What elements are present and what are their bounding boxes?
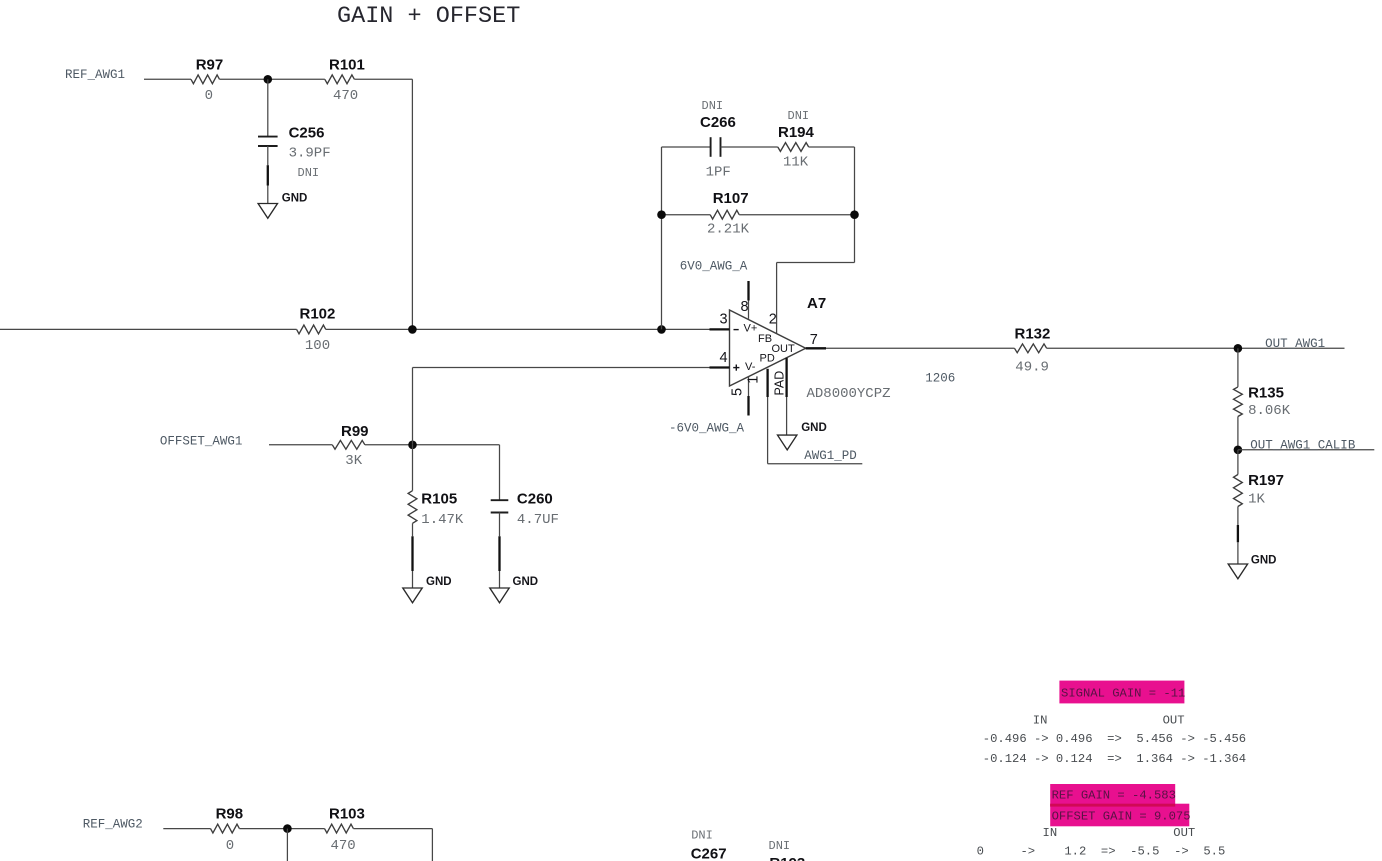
svg-text:7: 7: [810, 332, 818, 348]
svg-text:OUT: OUT: [772, 343, 796, 355]
wire R103 to corner: [353, 828, 432, 830]
wire R98 to R103: [239, 828, 324, 830]
wire pin2 horizontal: [777, 262, 855, 264]
wire to op-amp pin4: [413, 367, 710, 369]
svg-text:OFFSET_AWG1: OFFSET_AWG1: [160, 434, 243, 448]
svg-text:GND: GND: [513, 576, 539, 588]
wire junction down: [286, 829, 288, 861]
op-amp internal labels: [734, 329, 739, 331]
resistor R98: [211, 824, 240, 833]
svg-text:0: 0: [226, 838, 234, 854]
svg-text:GAIN + OFFSET: GAIN + OFFSET: [337, 3, 520, 30]
wire up to pin4 line: [412, 368, 414, 445]
svg-text:R101: R101: [329, 56, 365, 73]
svg-text:6V0_AWG_A: 6V0_AWG_A: [680, 259, 748, 273]
pin 7 output: [806, 347, 826, 349]
svg-text:2: 2: [769, 311, 777, 327]
wire feedback left vertical: [661, 147, 663, 329]
wire corner down to inverting line: [411, 79, 413, 329]
svg-text:DNI: DNI: [702, 99, 724, 113]
resistor R132: [1015, 344, 1047, 353]
svg-text:-0.124 -> 0.124 => 1.364 ->: -0.124 -> 0.124 => 1.364 -> -1.364: [983, 752, 1246, 766]
svg-text:1206: 1206: [925, 372, 955, 386]
svg-text:5: 5: [730, 388, 746, 396]
svg-text:OUT_AWG1_CALIB: OUT_AWG1_CALIB: [1250, 439, 1356, 453]
wire R99 to C260: [365, 444, 500, 446]
svg-text:0: 0: [205, 88, 213, 104]
junction R98/C257: [283, 824, 292, 833]
svg-text:100: 100: [305, 338, 330, 354]
resistor R194: [778, 143, 809, 152]
pin C260 bottom: [499, 513, 501, 537]
wire R101 to corner: [354, 78, 412, 80]
svg-text:REF GAIN = -4.583: REF GAIN = -4.583: [1052, 788, 1176, 802]
wire OUT_AWG1_CALIB: [1238, 449, 1374, 451]
resistor R197: [1234, 475, 1243, 507]
svg-text:R105: R105: [421, 490, 457, 507]
pin R105 bottom: [412, 523, 414, 536]
svg-text:GND: GND: [1251, 555, 1277, 567]
svg-text:DNI: DNI: [769, 839, 791, 853]
svg-text:R98: R98: [216, 806, 244, 823]
svg-text:V+: V+: [744, 323, 758, 335]
svg-text:-6V0_AWG_A: -6V0_AWG_A: [669, 421, 745, 435]
svg-text:AWG1_PD: AWG1_PD: [804, 449, 857, 463]
svg-text:8: 8: [741, 299, 749, 315]
svg-text:OUT: OUT: [1163, 713, 1185, 727]
wire REF_AWG1 to R97: [144, 78, 191, 80]
ground R197: [1228, 564, 1247, 579]
capacitor C256: [258, 136, 278, 138]
svg-text:8.06K: 8.06K: [1248, 403, 1291, 419]
svg-text:OFFSET GAIN = 9.075: OFFSET GAIN = 9.075: [1052, 810, 1191, 824]
svg-text:1K: 1K: [1248, 492, 1265, 508]
svg-text:11K: 11K: [783, 155, 809, 171]
svg-text:3: 3: [720, 311, 728, 327]
svg-text:AD8000YCPZ: AD8000YCPZ: [807, 386, 891, 402]
wire C266 to R194: [721, 146, 778, 148]
svg-text:-0.496 -> 0.496 => 5.456 ->: -0.496 -> 0.496 => 5.456 -> -5.456: [983, 732, 1246, 746]
svg-text:GND: GND: [801, 422, 827, 434]
svg-text:DNI: DNI: [298, 166, 320, 180]
wire left edge to R102: [0, 328, 297, 330]
wire down to R105: [412, 445, 414, 491]
svg-text:OUT_AWG1: OUT_AWG1: [1265, 337, 1325, 351]
wire REF_AWG2 to R98: [163, 828, 210, 830]
svg-text:DNI: DNI: [788, 109, 810, 123]
resistor R107: [710, 210, 739, 219]
wire junction to C256: [267, 79, 269, 136]
junction offset node: [408, 441, 417, 450]
wire R97 to R101: [220, 78, 325, 80]
note SIGNAL GAIN highlight: [1059, 681, 1184, 704]
wire pin1 down: [767, 397, 769, 464]
note OFFSET GAIN highlight: [1050, 804, 1189, 827]
svg-text:C260: C260: [517, 490, 553, 507]
wire AWG1_PD: [768, 463, 863, 465]
junction OUT_AWG1: [1234, 344, 1243, 353]
pin R197 bottom: [1237, 507, 1239, 526]
ground PAD: [778, 435, 797, 450]
svg-text:SIGNAL GAIN = -11: SIGNAL GAIN = -11: [1061, 687, 1185, 701]
svg-text:REF_AWG2: REF_AWG2: [83, 818, 143, 832]
wire corner down: [431, 829, 433, 861]
wire R102 to op-amp pin3: [326, 328, 710, 330]
capacitor C266: [710, 137, 712, 157]
pin 3 inverting input: [710, 328, 730, 330]
svg-text:R135: R135: [1248, 384, 1284, 401]
svg-text:0 -> 1.2 => -5.5 ->: 0 -> 1.2 => -5.5 -> 5.5: [977, 845, 1226, 859]
junction R107 left: [657, 210, 666, 219]
svg-text:R194: R194: [778, 124, 815, 141]
svg-text:V-: V-: [745, 361, 756, 373]
ground C256: [258, 204, 277, 219]
svg-text:C256: C256: [289, 124, 325, 141]
svg-text:OUT: OUT: [1173, 826, 1195, 840]
svg-text:C267: C267: [691, 845, 727, 861]
wire R132 to OUT_AWG1: [1047, 347, 1345, 349]
svg-text:FB: FB: [758, 333, 772, 345]
svg-text:DNI: DNI: [691, 829, 713, 843]
svg-text:49.9: 49.9: [1015, 360, 1049, 376]
resistor R103: [325, 824, 354, 833]
wire R135 to CALIB node: [1237, 417, 1239, 450]
svg-text:1.47K: 1.47K: [421, 512, 464, 528]
wire R107 to right vertical: [739, 214, 854, 216]
resistor R99: [332, 440, 365, 449]
ground C260: [490, 588, 509, 603]
wire down to R135: [1237, 348, 1239, 387]
svg-text:4.7UF: 4.7UF: [517, 512, 559, 528]
wire left to R107: [662, 214, 711, 216]
svg-text:3K: 3K: [345, 453, 362, 469]
svg-text:REF_AWG1: REF_AWG1: [65, 68, 125, 82]
pin PAD: [785, 358, 787, 397]
svg-text:GND: GND: [282, 193, 308, 205]
resistor R101: [325, 75, 355, 84]
svg-text:PAD: PAD: [773, 371, 787, 396]
wire op-amp output to R132: [826, 347, 1015, 349]
svg-text:R193: R193: [769, 855, 805, 861]
svg-text:470: 470: [331, 838, 356, 854]
ground R105: [403, 588, 422, 603]
resistor R105: [408, 491, 417, 524]
wire to C266: [662, 146, 711, 148]
svg-text:4: 4: [720, 350, 728, 366]
svg-text:IN: IN: [1043, 826, 1058, 840]
resistor R102: [297, 325, 326, 334]
svg-text:R107: R107: [713, 190, 749, 207]
note REF GAIN highlight: [1050, 784, 1175, 807]
svg-text:1PF: 1PF: [706, 165, 731, 181]
wire OFFSET_AWG1 to R99: [269, 444, 332, 446]
svg-text:R102: R102: [300, 305, 336, 322]
svg-text:470: 470: [333, 88, 358, 104]
wire R194 to right vertical: [809, 146, 855, 148]
svg-text:C266: C266: [700, 114, 736, 131]
wire down to C260: [499, 445, 501, 500]
svg-text:IN: IN: [1033, 713, 1048, 727]
svg-text:R97: R97: [196, 56, 224, 73]
pin 8 V+ supply: [747, 281, 749, 301]
op-amp A7 AD8000YCPZ: [730, 310, 806, 386]
resistor R97: [191, 75, 220, 84]
svg-text:R197: R197: [1248, 472, 1284, 489]
svg-text:1: 1: [745, 376, 761, 384]
wire PAD to ground: [786, 397, 788, 435]
wire down to R197: [1237, 450, 1239, 475]
wire pin2 down to FB: [776, 263, 778, 334]
svg-text:3.9PF: 3.9PF: [289, 146, 331, 162]
pin C256 bottom: [267, 146, 269, 165]
svg-text:R103: R103: [329, 806, 365, 823]
pin 4 non-inverting input: [710, 366, 730, 368]
svg-text:R99: R99: [341, 423, 369, 440]
resistor R135: [1234, 387, 1243, 417]
junction R97/C256: [264, 75, 273, 84]
junction feedback left: [657, 325, 666, 334]
svg-text:R132: R132: [1015, 325, 1051, 342]
svg-text:2.21K: 2.21K: [707, 221, 750, 237]
junction R107 right: [850, 210, 859, 219]
capacitor C260: [491, 499, 509, 501]
svg-text:GND: GND: [426, 576, 452, 588]
svg-text:PD: PD: [760, 353, 775, 365]
wire feedback right vertical: [854, 147, 856, 263]
pin 1 PD: [766, 369, 768, 397]
junction R101/R102 line: [408, 325, 417, 334]
svg-text:A7: A7: [807, 295, 826, 312]
junction OUT_AWG1_CALIB: [1234, 446, 1243, 455]
pin 5 V- supply: [748, 377, 750, 396]
